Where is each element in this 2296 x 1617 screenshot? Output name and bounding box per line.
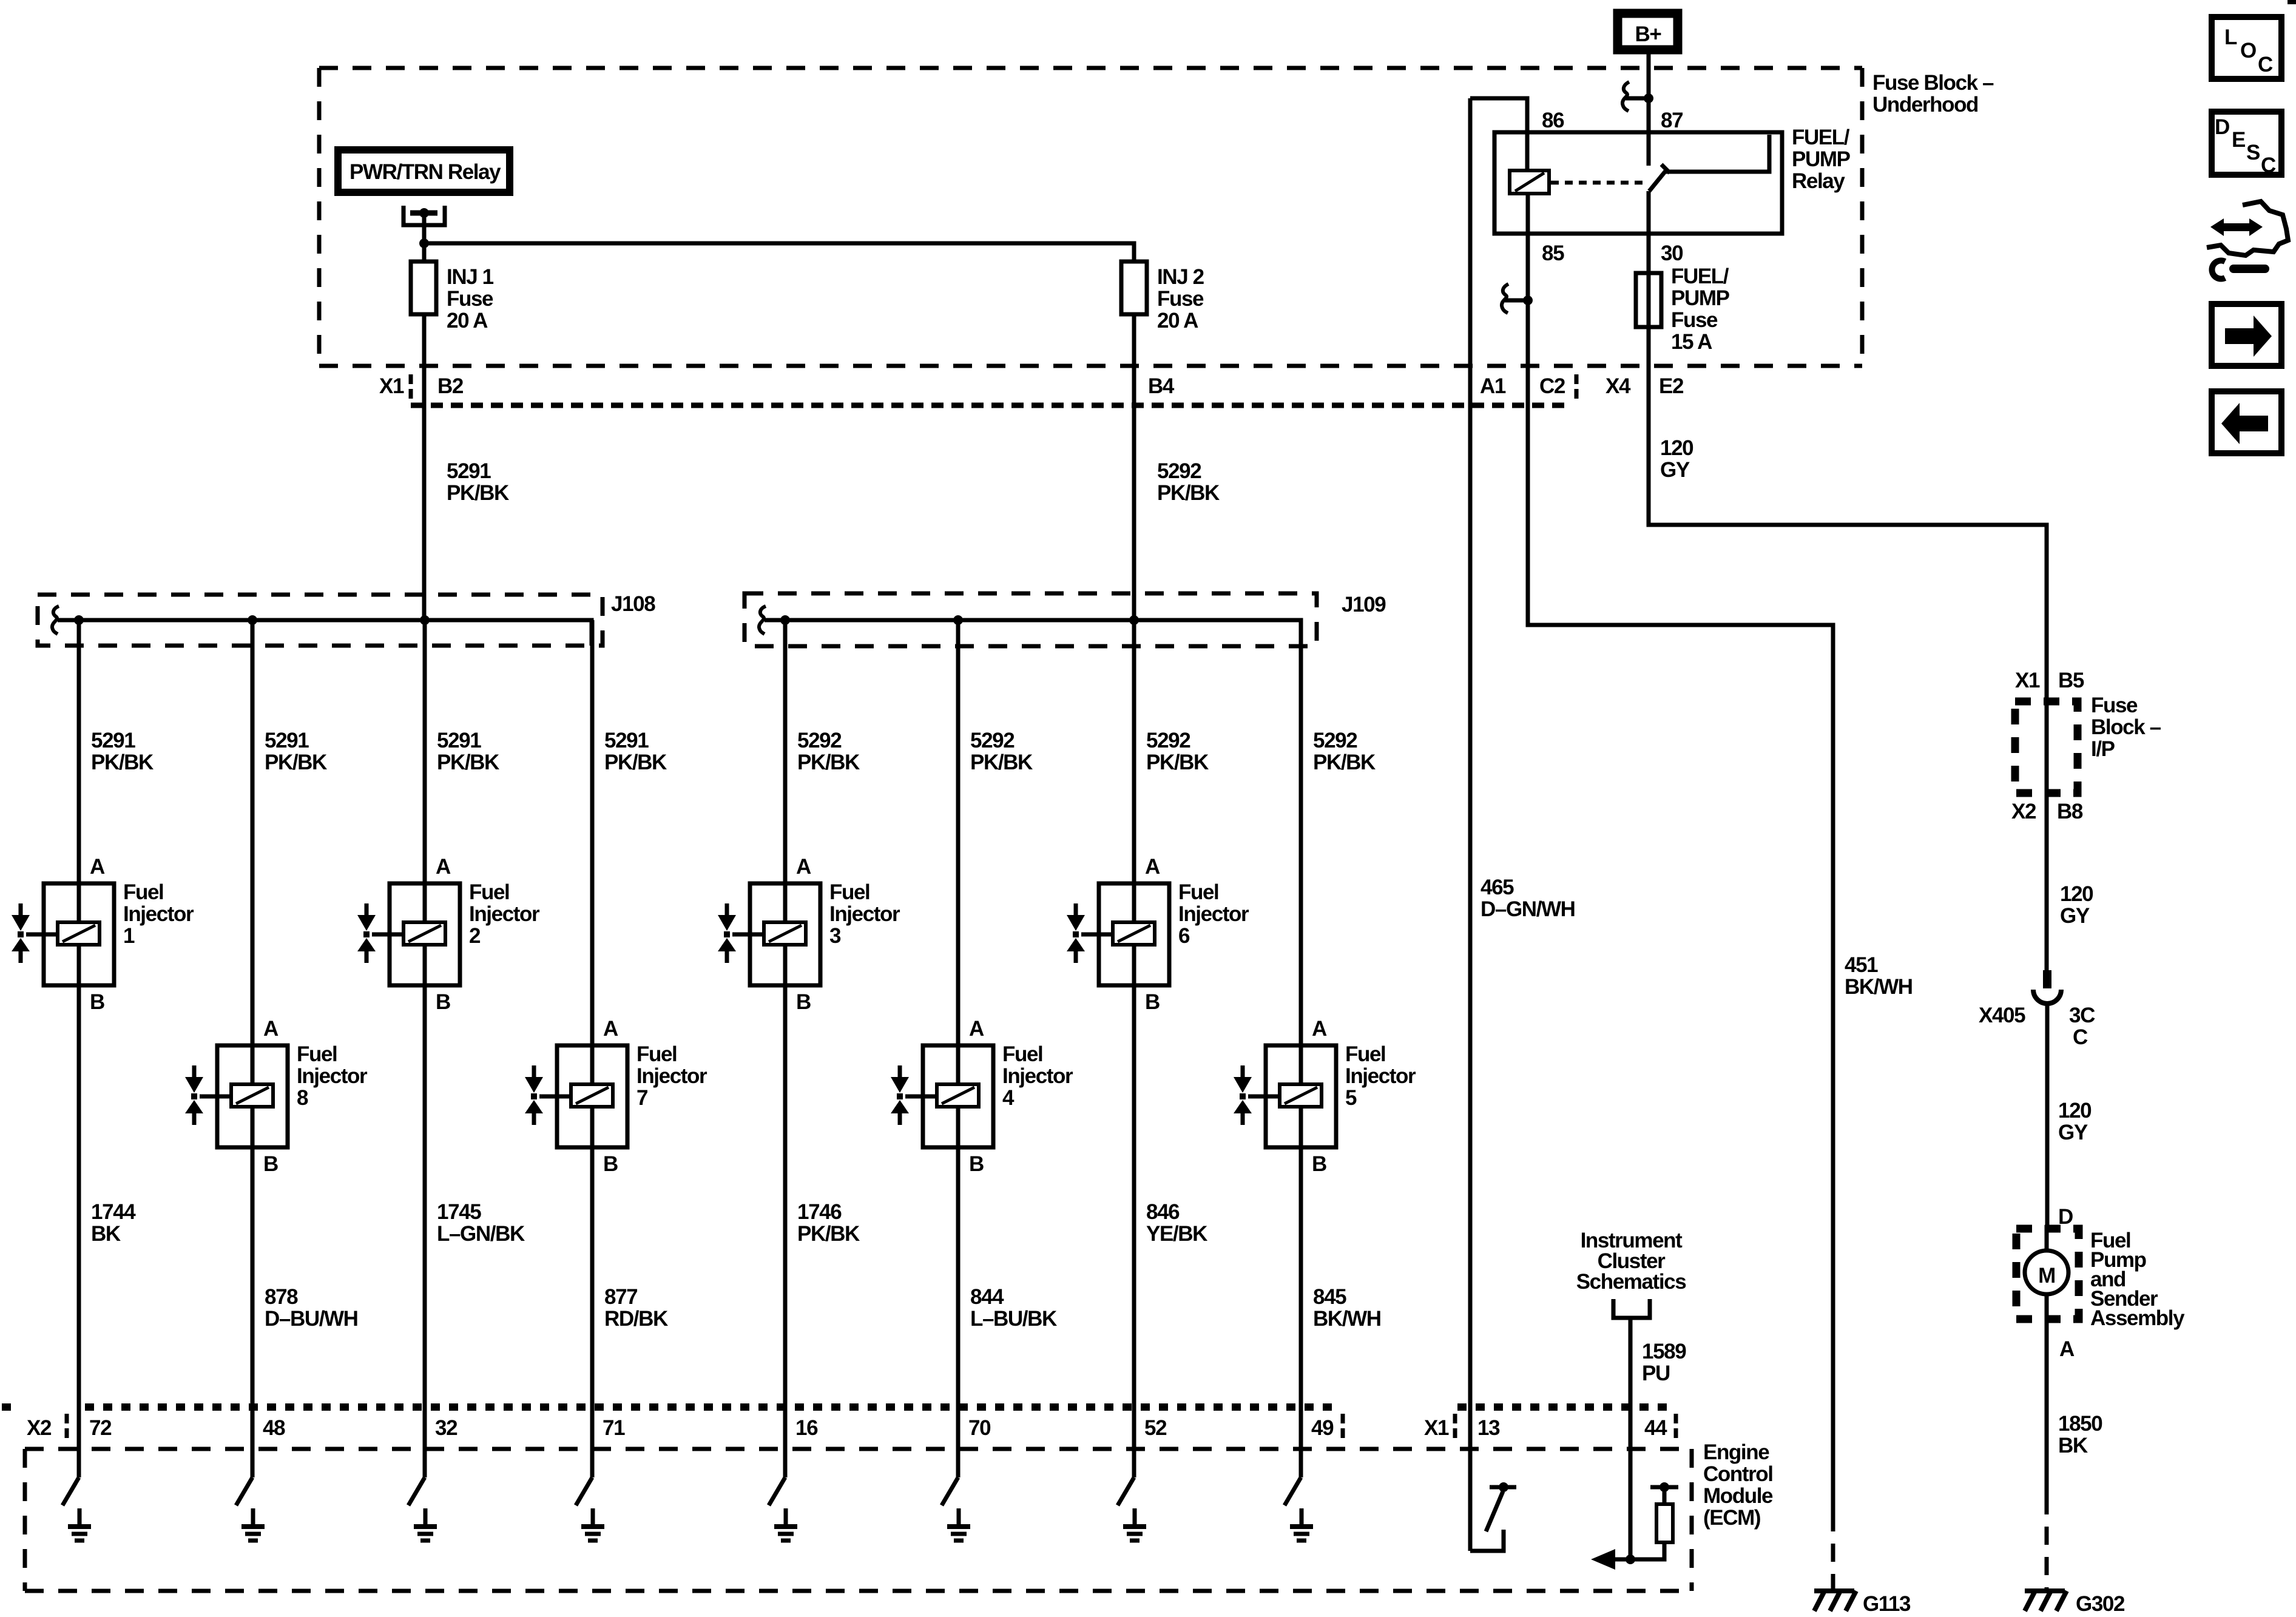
injector column 2: wire 5291 PK/BK xyxy=(248,615,257,625)
svg-text:5292: 5292 xyxy=(797,729,842,752)
svg-text:Fuel: Fuel xyxy=(123,880,163,904)
pump motor M xyxy=(2025,1251,2068,1294)
svg-text:86: 86 xyxy=(1542,109,1564,132)
svg-text:15 A: 15 A xyxy=(1671,330,1712,354)
relay FUEL/PUMP box xyxy=(1494,132,1782,234)
svg-text:2: 2 xyxy=(469,924,481,948)
J109 bus bar xyxy=(765,620,1301,646)
wire PWR/TRN relay to INJ 1 fuse xyxy=(422,213,427,262)
svg-text:PK/BK: PK/BK xyxy=(265,751,327,774)
engine control module (ECM) dashed box xyxy=(25,1447,1692,1451)
svg-text:120: 120 xyxy=(2060,882,2093,906)
svg-text:44: 44 xyxy=(1644,1416,1667,1440)
svg-text:RD/BK: RD/BK xyxy=(604,1307,668,1331)
svg-text:1589: 1589 xyxy=(1642,1340,1686,1363)
svg-text:BK: BK xyxy=(91,1222,121,1246)
svg-text:E: E xyxy=(2232,128,2245,152)
svg-text:INJ 1: INJ 1 xyxy=(447,265,494,289)
svg-text:5291: 5291 xyxy=(91,729,135,752)
svg-text:85: 85 xyxy=(1542,241,1564,265)
injector column 3: wire 5291 PK/BK xyxy=(420,615,430,625)
wire 1589 PU xyxy=(1629,1318,1633,1559)
splice pack J108 (dashed box) xyxy=(38,595,603,646)
svg-text:PK/BK: PK/BK xyxy=(1146,751,1209,774)
svg-text:PU: PU xyxy=(1642,1362,1670,1385)
svg-text:PK/BK: PK/BK xyxy=(437,751,499,774)
svg-text:B5: B5 xyxy=(2058,669,2084,692)
fuel injector 6 xyxy=(1099,883,1169,985)
svg-text:YE/BK: YE/BK xyxy=(1146,1222,1207,1246)
svg-text:30: 30 xyxy=(1661,241,1683,265)
svg-text:Fuse: Fuse xyxy=(1671,308,1718,332)
svg-text:5292: 5292 xyxy=(970,729,1015,752)
connector row X1 B2 B4 A1 C2 X4 E2 xyxy=(411,403,1570,408)
ground G113 xyxy=(1814,1588,1854,1593)
junction node xyxy=(419,238,429,248)
socket terminal under PWR/TRN relay xyxy=(403,206,445,225)
svg-text:48: 48 xyxy=(263,1416,285,1440)
ground xyxy=(1133,1508,1137,1527)
svg-text:Fuel: Fuel xyxy=(636,1042,677,1066)
svg-text:D–BU/WH: D–BU/WH xyxy=(265,1307,358,1331)
svg-text:1745: 1745 xyxy=(437,1200,481,1224)
svg-text:5292: 5292 xyxy=(1157,459,1201,483)
svg-text:FUEL/: FUEL/ xyxy=(1671,265,1729,288)
ECM driver switch pin 16 xyxy=(769,1477,785,1505)
svg-text:Fuel: Fuel xyxy=(1345,1042,1385,1066)
svg-text:PK/BK: PK/BK xyxy=(447,481,509,505)
fuse FUEL/PUMP 15 A xyxy=(1636,273,1661,327)
svg-text:Injector: Injector xyxy=(1345,1064,1416,1088)
svg-text:Injector: Injector xyxy=(469,902,540,926)
svg-text:C2: C2 xyxy=(1539,374,1565,398)
svg-text:G113: G113 xyxy=(1863,1592,1911,1616)
svg-text:Assembly: Assembly xyxy=(2090,1306,2185,1330)
svg-text:PK/BK: PK/BK xyxy=(91,751,154,774)
wire B+ to FUEL/PUMP relay pin 87 xyxy=(1647,54,1651,166)
ground xyxy=(591,1508,595,1527)
svg-text:I/P: I/P xyxy=(2091,737,2115,761)
svg-text:A: A xyxy=(603,1017,618,1041)
fuel injector 8 xyxy=(217,1045,288,1147)
svg-text:Injector: Injector xyxy=(297,1064,368,1088)
relay coil xyxy=(1510,170,1549,194)
svg-text:B+: B+ xyxy=(1635,22,1662,46)
relay actuating dashes xyxy=(1551,181,1646,185)
svg-text:8: 8 xyxy=(297,1086,308,1110)
svg-text:GY: GY xyxy=(2058,1121,2088,1144)
svg-text:PK/BK: PK/BK xyxy=(970,751,1033,774)
ECM driver switch pin 72 xyxy=(62,1477,79,1505)
svg-text:PK/BK: PK/BK xyxy=(797,751,860,774)
injector column 6: wire 5292 PK/BK xyxy=(953,615,963,625)
svg-text:A: A xyxy=(1145,855,1160,879)
connector X405 xyxy=(2043,970,2051,988)
svg-text:PK/BK: PK/BK xyxy=(1157,481,1220,505)
svg-text:GY: GY xyxy=(1660,458,1690,482)
svg-text:Injector: Injector xyxy=(123,902,194,926)
svg-text:1744: 1744 xyxy=(91,1200,136,1224)
svg-text:72: 72 xyxy=(89,1416,112,1440)
svg-text:846: 846 xyxy=(1146,1200,1180,1224)
svg-text:20 A: 20 A xyxy=(1157,309,1198,333)
svg-text:87: 87 xyxy=(1661,109,1683,132)
svg-text:5291: 5291 xyxy=(265,729,309,752)
svg-text:6: 6 xyxy=(1178,924,1190,948)
svg-text:5292: 5292 xyxy=(1146,729,1190,752)
ECM driver switch pin 48 xyxy=(236,1477,252,1505)
ground xyxy=(424,1508,428,1527)
svg-text:Schematics: Schematics xyxy=(1576,1270,1686,1294)
wire INJ1 fuse down through B2 to J108 xyxy=(422,314,427,620)
ground xyxy=(1300,1508,1304,1527)
ground G302 xyxy=(2025,1588,2065,1593)
svg-text:5291: 5291 xyxy=(604,729,649,752)
nav icon pointer/wrench xyxy=(2207,201,2288,255)
svg-text:X1: X1 xyxy=(1424,1416,1449,1440)
svg-text:B: B xyxy=(263,1152,278,1176)
svg-text:PK/BK: PK/BK xyxy=(797,1222,860,1246)
relay switch contact xyxy=(1649,135,1769,191)
svg-text:B: B xyxy=(436,990,450,1014)
svg-text:49: 49 xyxy=(1311,1416,1334,1440)
svg-text:X405: X405 xyxy=(1979,1004,2025,1027)
svg-text:J108: J108 xyxy=(611,592,655,616)
svg-text:A: A xyxy=(436,855,451,879)
svg-text:B8: B8 xyxy=(2057,800,2083,823)
svg-text:B: B xyxy=(603,1152,618,1176)
nav box arrow left xyxy=(2212,391,2281,453)
svg-text:X4: X4 xyxy=(1606,374,1631,398)
injector column 4: wire 5291 PK/BK xyxy=(590,620,595,1084)
svg-text:B: B xyxy=(90,990,104,1014)
svg-text:120: 120 xyxy=(1660,436,1693,460)
svg-text:Injector: Injector xyxy=(829,902,900,926)
ECM switch at pin 13 xyxy=(1470,1530,1504,1551)
svg-text:Fuse Block –: Fuse Block – xyxy=(1872,71,1994,95)
injector column 1: wire 5291 PK/BK xyxy=(74,615,84,625)
svg-text:Fuel: Fuel xyxy=(297,1042,337,1066)
svg-text:GY: GY xyxy=(2060,904,2090,928)
ground xyxy=(784,1508,788,1527)
clip splice at pin 87 xyxy=(1626,96,1649,101)
nav box LOC xyxy=(2212,17,2281,79)
wire 465 D-GN/WH (A1 to ECM pin 13) xyxy=(1468,98,1473,1551)
ground xyxy=(251,1508,255,1527)
J109 end curl xyxy=(759,606,766,634)
svg-text:Module: Module xyxy=(1703,1484,1773,1508)
svg-text:A: A xyxy=(796,855,811,879)
svg-text:52: 52 xyxy=(1144,1416,1167,1440)
svg-text:A1: A1 xyxy=(1480,374,1506,398)
svg-text:PK/BK: PK/BK xyxy=(604,751,667,774)
nav box arrow right xyxy=(2212,304,2281,366)
svg-text:A: A xyxy=(1312,1017,1327,1041)
svg-text:(ECM): (ECM) xyxy=(1703,1506,1760,1530)
svg-text:451: 451 xyxy=(1845,953,1878,977)
svg-text:BK: BK xyxy=(2058,1434,2088,1457)
svg-text:Fuel: Fuel xyxy=(829,880,869,904)
ECM connector row X2 / X1 xyxy=(2,1403,17,1411)
svg-text:X1: X1 xyxy=(2015,669,2040,692)
wire INJ2 fuse down through B4 to J109 xyxy=(1132,314,1136,620)
svg-text:Underhood: Underhood xyxy=(1872,93,1978,116)
wire relay pin 86 link xyxy=(1470,98,1527,170)
svg-text:845: 845 xyxy=(1313,1285,1346,1309)
svg-text:PWR/TRN Relay: PWR/TRN Relay xyxy=(349,160,501,184)
svg-text:A: A xyxy=(2059,1337,2075,1361)
svg-text:5291: 5291 xyxy=(437,729,481,752)
svg-text:D: D xyxy=(2215,115,2229,139)
svg-text:1: 1 xyxy=(123,924,135,948)
fuel injector 3 xyxy=(750,883,820,985)
svg-text:1850: 1850 xyxy=(2058,1412,2102,1436)
svg-text:5291: 5291 xyxy=(447,459,491,483)
svg-text:Injector: Injector xyxy=(1178,902,1249,926)
wire relay pin 85 / C2 / 451 BK/WH xyxy=(1528,194,1833,1513)
svg-text:PK/BK: PK/BK xyxy=(1313,751,1376,774)
svg-text:Injector: Injector xyxy=(1002,1064,1073,1088)
svg-text:3: 3 xyxy=(829,924,841,948)
svg-text:X2: X2 xyxy=(27,1416,52,1440)
svg-text:5: 5 xyxy=(1345,1086,1357,1110)
svg-text:A: A xyxy=(969,1017,984,1041)
ground xyxy=(957,1508,961,1527)
svg-text:L: L xyxy=(2224,25,2237,49)
svg-text:16: 16 xyxy=(795,1416,818,1440)
relay PWR/TRN (bold box) xyxy=(338,150,510,192)
svg-text:C: C xyxy=(2073,1025,2088,1049)
svg-text:FUEL/: FUEL/ xyxy=(1792,126,1850,149)
svg-text:5292: 5292 xyxy=(1313,729,1357,752)
svg-text:L–GN/BK: L–GN/BK xyxy=(437,1222,525,1246)
svg-text:G302: G302 xyxy=(2076,1592,2125,1616)
svg-text:70: 70 xyxy=(968,1416,991,1440)
power feed B+ xyxy=(1618,13,1678,50)
svg-text:Fuse: Fuse xyxy=(1157,287,1204,311)
svg-text:Fuse: Fuse xyxy=(2091,694,2138,717)
svg-text:4: 4 xyxy=(1002,1086,1015,1110)
J108 bus bar xyxy=(58,620,592,646)
svg-text:878: 878 xyxy=(265,1285,298,1309)
dashed drop to G113 xyxy=(1831,1513,1835,1588)
svg-text:B: B xyxy=(1145,990,1160,1014)
ECM driver switch pin 32 xyxy=(408,1477,425,1505)
svg-text:Engine: Engine xyxy=(1703,1440,1769,1464)
nav box DESC xyxy=(2212,112,2281,175)
injector column 7: wire 5292 PK/BK xyxy=(1129,615,1139,625)
svg-text:13: 13 xyxy=(1477,1416,1500,1440)
page corner mark xyxy=(2288,0,2296,4)
svg-text:Injector: Injector xyxy=(636,1064,707,1088)
svg-text:M: M xyxy=(2038,1264,2055,1288)
svg-text:120: 120 xyxy=(2058,1099,2092,1122)
svg-text:PUMP: PUMP xyxy=(1671,286,1730,310)
svg-text:Fuse: Fuse xyxy=(447,287,493,311)
fuel injector 4 xyxy=(923,1045,993,1147)
ECM driver switch pin 52 xyxy=(1118,1477,1134,1505)
svg-text:PUMP: PUMP xyxy=(1792,147,1851,171)
svg-text:A: A xyxy=(90,855,105,879)
svg-text:B: B xyxy=(969,1152,984,1176)
svg-text:BK/WH: BK/WH xyxy=(1845,975,1913,999)
svg-text:32: 32 xyxy=(435,1416,458,1440)
svg-text:844: 844 xyxy=(970,1285,1004,1309)
svg-text:1746: 1746 xyxy=(797,1200,842,1224)
svg-text:C: C xyxy=(2261,154,2276,177)
svg-text:20 A: 20 A xyxy=(447,309,488,333)
ECM driver switch pin 71 xyxy=(576,1477,592,1505)
svg-text:J109: J109 xyxy=(1342,593,1386,616)
svg-text:BK/WH: BK/WH xyxy=(1313,1307,1381,1331)
wire relay pin 30 through fuse to E2 xyxy=(1649,191,2047,971)
fuse block underhood (dashed box) xyxy=(319,66,1862,70)
svg-text:INJ 2: INJ 2 xyxy=(1157,265,1204,289)
svg-text:X1: X1 xyxy=(379,374,404,398)
svg-text:Fuel: Fuel xyxy=(469,880,509,904)
fuel injector 2 xyxy=(390,883,460,985)
svg-text:X2: X2 xyxy=(2011,800,2036,823)
svg-text:877: 877 xyxy=(604,1285,637,1309)
svg-text:Block –: Block – xyxy=(2091,715,2161,739)
ECM driver switch pin 70 xyxy=(942,1477,958,1505)
svg-text:D–GN/WH: D–GN/WH xyxy=(1481,897,1575,921)
injector column 8: wire 5292 PK/BK xyxy=(1299,620,1303,1084)
ECM pin 44 resistor and arrow xyxy=(1626,1555,1635,1564)
svg-text:A: A xyxy=(263,1017,279,1041)
injector column 5: wire 5292 PK/BK xyxy=(780,615,790,625)
splice pack J109 (dashed box) xyxy=(745,593,1317,646)
svg-text:71: 71 xyxy=(603,1416,625,1440)
svg-text:B4: B4 xyxy=(1148,374,1175,398)
ECM driver switch pin 49 xyxy=(1285,1477,1301,1505)
fuel injector 7 xyxy=(557,1045,627,1147)
svg-text:B: B xyxy=(796,990,811,1014)
svg-text:465: 465 xyxy=(1481,876,1514,899)
svg-text:Fuel: Fuel xyxy=(1178,880,1218,904)
wire junction to INJ 2 fuse xyxy=(424,243,1134,262)
svg-text:B: B xyxy=(1312,1152,1326,1176)
fuel injector 5 xyxy=(1266,1045,1336,1147)
fuse INJ 1 20 A xyxy=(411,262,436,314)
svg-text:B2: B2 xyxy=(437,374,464,398)
svg-text:7: 7 xyxy=(636,1086,647,1110)
J108 end curl xyxy=(52,606,59,634)
fuel injector 1 xyxy=(44,883,114,985)
svg-text:Control: Control xyxy=(1703,1462,1773,1486)
clip splice at pin 85 xyxy=(1505,299,1528,303)
svg-text:C: C xyxy=(2258,53,2273,76)
ground xyxy=(78,1508,82,1527)
fuse INJ 2 20 A xyxy=(1121,262,1147,314)
svg-text:3C: 3C xyxy=(2069,1004,2095,1027)
svg-text:E2: E2 xyxy=(1659,374,1684,398)
svg-text:S: S xyxy=(2246,141,2260,164)
svg-text:O: O xyxy=(2240,39,2256,62)
svg-text:L–BU/BK: L–BU/BK xyxy=(970,1307,1057,1331)
svg-text:Relay: Relay xyxy=(1792,169,1845,193)
svg-text:Fuel: Fuel xyxy=(1002,1042,1042,1066)
